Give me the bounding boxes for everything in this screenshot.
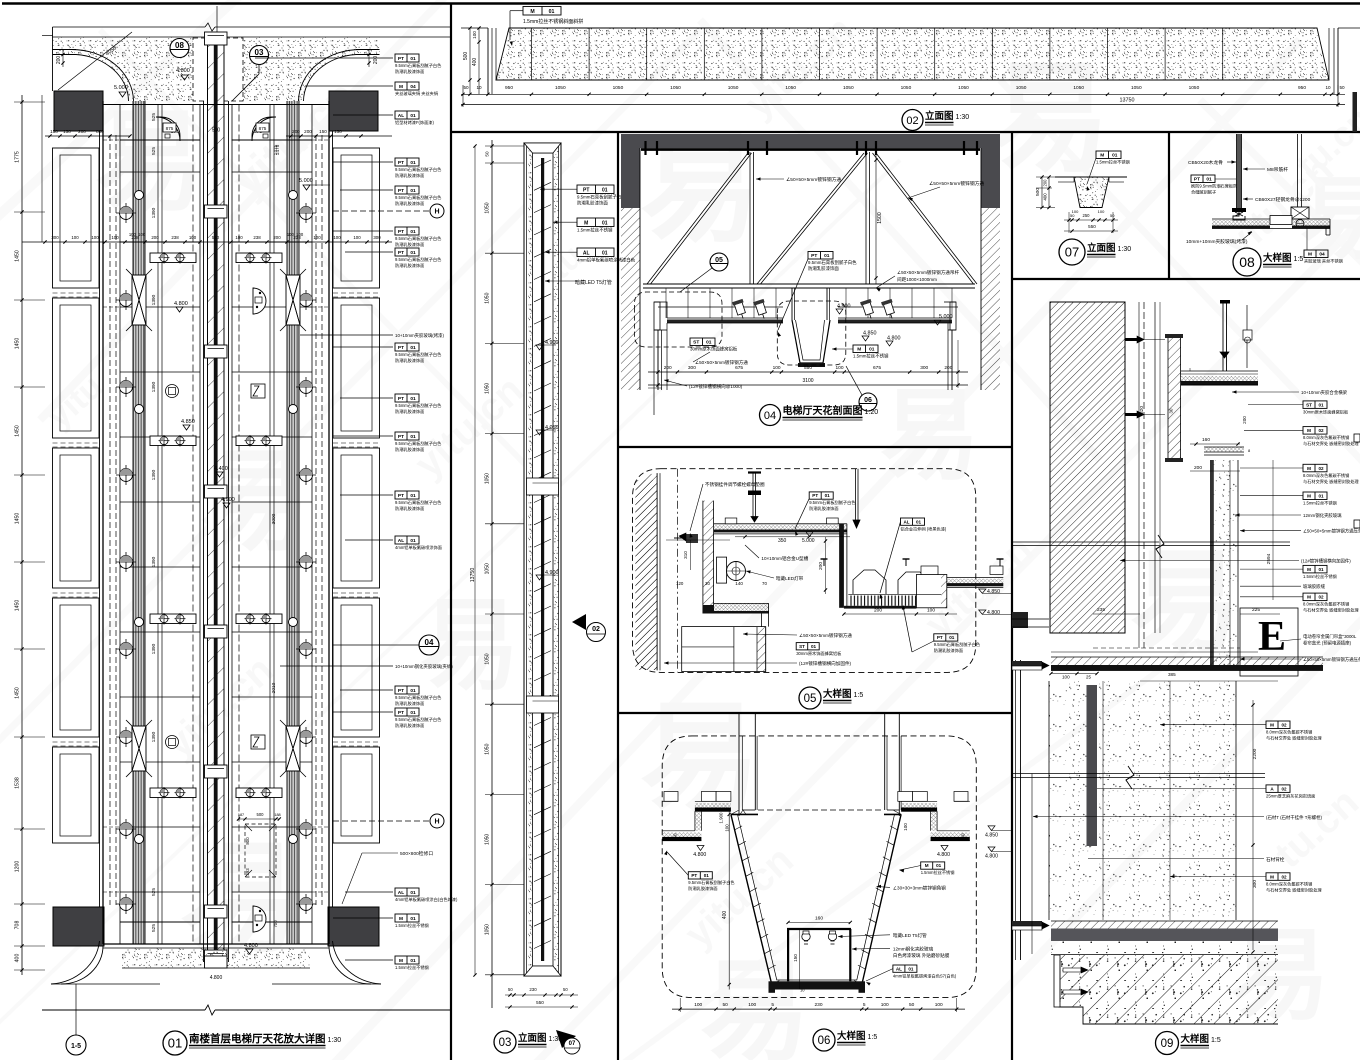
left lower column bits (1031, 774, 1033, 955)
svg-text:100: 100 (927, 608, 935, 614)
svg-text:1.900: 1.900 (719, 812, 724, 824)
truss verticals (749, 152, 751, 284)
trough rim thick (731, 813, 758, 815)
svg-text:100: 100 (91, 235, 99, 240)
svg-text:30mm原木饰面蜂窝铝板: 30mm原木饰面蜂窝铝板 (796, 650, 842, 657)
svg-text:140: 140 (735, 581, 743, 586)
detail bubble 08 (170, 39, 189, 58)
svg-text:(12#镀锌槽钢横向加固件): (12#镀锌槽钢横向加固件) (799, 660, 852, 667)
svg-text:400: 400 (722, 911, 728, 920)
right white box joints (921, 566, 938, 575)
svg-text:875: 875 (166, 126, 174, 131)
svg-text:5.000: 5.000 (114, 85, 128, 91)
svg-text:50: 50 (563, 987, 568, 992)
title 02 (902, 110, 923, 131)
svg-text:02: 02 (1318, 595, 1324, 600)
right wall lines (332, 131, 334, 907)
svg-text:1050: 1050 (485, 563, 491, 574)
spotlights left (732, 299, 748, 320)
svg-text:550: 550 (1088, 224, 1096, 229)
svg-text:防潮乳胶漆饰面: 防潮乳胶漆饰面 (808, 265, 839, 272)
right ledge (916, 575, 946, 608)
svg-text:易: 易 (95, 101, 205, 224)
svg-text:H: H (434, 819, 439, 826)
svg-text:PT: PT (398, 396, 404, 402)
svg-text:8.0mm深灰色氟碳不锈钢: 8.0mm深灰色氟碳不锈钢 (1266, 880, 1312, 887)
svg-text:1450: 1450 (15, 338, 21, 350)
mullion hatched (1168, 337, 1181, 460)
svg-text:01: 01 (410, 56, 416, 62)
svg-text:01: 01 (1318, 567, 1324, 572)
top break line (53, 26, 206, 28)
labels 04 (808, 252, 833, 260)
svg-text:1200: 1200 (15, 861, 21, 873)
rim lines (1055, 176, 1074, 178)
break line lower (1012, 773, 1265, 775)
floor band mid (first) (1051, 657, 1323, 665)
svg-text:防潮乳胶漆饰面: 防潮乳胶漆饰面 (395, 68, 424, 75)
svg-text:∠50×50×5mm镀锌钢方通: ∠50×50×5mm镀锌钢方通 (695, 359, 748, 366)
svg-text:防潮乳胶漆饰面: 防潮乳胶漆饰面 (395, 172, 424, 179)
svg-text:01: 01 (602, 221, 608, 227)
svg-text:01: 01 (410, 710, 416, 716)
svg-text:293: 293 (245, 868, 250, 876)
rounded dashed border 06 (662, 736, 976, 998)
svg-text:大样图: 大样图 (823, 688, 852, 700)
svg-text:5: 5 (771, 1002, 774, 1008)
panel border: below 07/08 (1012, 278, 1360, 280)
svg-text:10+10mm钢化夹胶玻璃(夹绢): 10+10mm钢化夹胶玻璃(夹绢) (395, 663, 453, 670)
small T hangers (821, 558, 828, 560)
ceiling hanger zone lines (658, 306, 783, 308)
concrete column hatched (1050, 302, 1125, 633)
svg-text:01: 01 (410, 890, 416, 896)
svg-text:08: 08 (175, 41, 184, 50)
svg-text:4.800: 4.800 (210, 975, 223, 981)
svg-text:1500: 1500 (877, 212, 883, 224)
svg-text:30: 30 (705, 581, 710, 586)
left end step (654, 302, 667, 318)
svg-text:与石材交界处 嵌缝密封胶处理: 与石材交界处 嵌缝密封胶处理 (1303, 440, 1359, 447)
svg-text:06: 06 (864, 397, 872, 404)
svg-text:1775: 1775 (15, 151, 21, 163)
svg-text:1050: 1050 (485, 292, 491, 303)
dashed wall cavity lines left (109, 135, 111, 905)
svg-text:13750: 13750 (1120, 98, 1135, 104)
svg-text:01: 01 (410, 396, 416, 402)
svg-text:9.5mm石膏板刮腻子白色: 9.5mm石膏板刮腻子白色 (808, 259, 857, 266)
lamps (802, 932, 810, 940)
svg-text:9.5mm石膏板刮腻子白色: 9.5mm石膏板刮腻子白色 (395, 499, 442, 506)
secondary rail (41, 95, 43, 242)
svg-text:500: 500 (463, 52, 469, 61)
svg-text:1.5mm拉丝不锈钢: 1.5mm拉丝不锈钢 (1303, 573, 1337, 580)
trough trapezoid 06 (731, 814, 901, 984)
svg-text:05: 05 (715, 257, 723, 264)
svg-text:160: 160 (1202, 437, 1210, 443)
right edge black bar (02 end wall) (1353, 92, 1358, 132)
svg-text:100: 100 (1062, 675, 1070, 680)
striped column strip left (133, 101, 145, 944)
svg-text:立面图: 立面图 (518, 1032, 547, 1044)
svg-text:200: 200 (818, 562, 824, 570)
svg-text:9.5mm石膏板刮腻子白色: 9.5mm石膏板刮腻子白色 (395, 694, 442, 701)
left top wall stub (52, 27, 54, 91)
left wall lower 04 (653, 330, 655, 415)
board top edge (1204, 451, 1244, 453)
ceiling band 08 (1212, 218, 1330, 220)
svg-text:1050: 1050 (785, 85, 796, 91)
svg-text:200: 200 (373, 56, 379, 65)
svg-text:100: 100 (313, 235, 321, 240)
svg-text:400: 400 (1043, 193, 1048, 201)
svg-text:易: 易 (180, 832, 300, 966)
floor slab diagonal hatch (1059, 955, 1278, 1024)
band segment joints (531, 28, 533, 80)
svg-text:M: M (1307, 494, 1311, 499)
svg-text:12mm钢化夹胶玻璃: 12mm钢化夹胶玻璃 (893, 945, 934, 952)
svg-text:AL: AL (583, 251, 590, 257)
svg-text:铝合金拉伸网 (喷黑色漆): 铝合金拉伸网 (喷黑色漆) (901, 525, 947, 532)
svg-text:4.400: 4.400 (214, 466, 228, 472)
svg-text:100 100: 100 100 (287, 232, 304, 237)
wall face line (659, 473, 661, 670)
svg-text:200: 200 (56, 56, 62, 65)
svg-text:300: 300 (1252, 880, 1258, 888)
svg-text:M: M (925, 863, 929, 868)
svg-text:电梯厅天花剖面图: 电梯厅天花剖面图 (783, 404, 863, 417)
svg-text:4.800: 4.800 (693, 852, 706, 858)
dim 1500 (875, 153, 877, 284)
svg-text:9.5mm石膏板刮腻子白色: 9.5mm石膏板刮腻子白色 (395, 402, 442, 409)
svg-text:01: 01 (410, 434, 416, 440)
svg-text:1450: 1450 (15, 250, 21, 262)
svg-text:4.800: 4.800 (937, 852, 950, 858)
svg-text:235: 235 (1097, 607, 1105, 613)
svg-text:AL: AL (896, 966, 902, 971)
svg-text:2010: 2010 (271, 682, 277, 693)
svg-text:PT: PT (398, 493, 404, 499)
svg-text:01: 01 (410, 538, 416, 544)
svg-text:1.5mm拉丝不锈钢: 1.5mm拉丝不锈钢 (853, 353, 889, 360)
svg-text:ST: ST (1306, 402, 1312, 407)
svg-text:03: 03 (499, 1037, 512, 1049)
svg-text:9.5mm石膏板刮腻子白色: 9.5mm石膏板刮腻子白色 (395, 716, 442, 723)
title 04 (760, 405, 781, 426)
central trough (791, 288, 793, 320)
svg-text:30: 30 (1169, 408, 1174, 413)
svg-text:1050: 1050 (485, 383, 491, 394)
dark column block top-right (329, 91, 378, 131)
svg-text:07: 07 (1065, 245, 1079, 260)
D-shaped downlight mid (253, 288, 266, 314)
svg-text:02: 02 (1318, 428, 1324, 433)
break line mid (1012, 541, 1290, 543)
sheet frame top border (2, 2, 1360, 5)
panel border: right of elevation 03 (617, 132, 619, 1060)
svg-text:M8吊筋杆: M8吊筋杆 (1267, 166, 1288, 173)
svg-text:1.5mm拉丝不锈钢: 1.5mm拉丝不锈钢 (395, 922, 429, 929)
svg-text:1538: 1538 (15, 777, 21, 789)
svg-text:PT: PT (398, 434, 404, 440)
svg-text:4.900: 4.900 (221, 497, 235, 503)
svg-text:AL: AL (398, 538, 404, 544)
svg-text:01: 01 (410, 958, 416, 964)
svg-text:4.850: 4.850 (863, 331, 877, 337)
top interior line (103, 104, 329, 106)
svg-text:(石材T (石材干挂件 T形螺栓): (石材T (石材干挂件 T形螺栓) (1266, 814, 1323, 821)
shaft joint boxes (205, 32, 228, 45)
svg-text:150: 150 (334, 129, 342, 134)
svg-text:400: 400 (472, 58, 478, 67)
truss diagonals (647, 153, 748, 284)
title 09 (1156, 1032, 1179, 1055)
left elevation 4.800 (697, 846, 704, 851)
wall anchor glyph (686, 534, 698, 543)
svg-text:PT: PT (937, 635, 943, 640)
svg-text:∠50×50×5mm镀锌钢方通压条: ∠50×50×5mm镀锌钢方通压条 (1303, 656, 1360, 663)
svg-text:防潮乳胶漆饰面: 防潮乳胶漆饰面 (395, 262, 424, 269)
hanger rods top (1222, 303, 1224, 371)
shaft walls above trough (738, 713, 740, 816)
svg-text:M: M (1307, 428, 1311, 433)
svg-text:1390: 1390 (151, 294, 157, 305)
left dims 07 (1041, 177, 1043, 208)
svg-text:250: 250 (1083, 213, 1091, 218)
bottom dims 07 (1064, 219, 1118, 221)
svg-text:04: 04 (1319, 252, 1325, 258)
svg-text:∠50×50×5mm镀锌钢方通: ∠50×50×5mm镀锌钢方通 (799, 632, 852, 639)
svg-text:01: 01 (410, 345, 416, 351)
svg-text:卷帘盒光 (预留电源插座): 卷帘盒光 (预留电源插座) (1303, 640, 1352, 647)
svg-text:200: 200 (273, 235, 281, 240)
svg-text:∠50×50×5mm镀锌钢方通吊杆: ∠50×50×5mm镀锌钢方通吊杆 (897, 269, 959, 276)
svg-text:01: 01 (811, 644, 817, 649)
dim row main (22, 241, 392, 243)
svg-text:525: 525 (151, 113, 157, 121)
angle bracket (1054, 955, 1060, 1007)
elevation marks (536, 345, 543, 350)
svg-text:4.800: 4.800 (987, 610, 1000, 616)
dim row numbers (461, 93, 1345, 95)
svg-text:1390: 1390 (151, 207, 157, 218)
z clip (1233, 211, 1245, 220)
svg-text:708: 708 (15, 921, 21, 930)
svg-text:100: 100 (748, 1002, 756, 1008)
svg-text:PT: PT (811, 253, 817, 259)
svg-text:01: 01 (949, 635, 955, 640)
svg-text:1:30: 1:30 (956, 114, 970, 121)
svg-text:500: 500 (1035, 188, 1041, 196)
svg-text:01: 01 (1318, 494, 1324, 499)
svg-text:120: 120 (676, 581, 684, 586)
svg-text:150: 150 (63, 129, 71, 134)
svg-text:50: 50 (673, 833, 678, 839)
bubble 06 ref (859, 393, 877, 411)
joint boxes (527, 478, 559, 495)
svg-text:铝型材烤漆F(饰面漆): 铝型材烤漆F(饰面漆) (395, 119, 434, 126)
bottom outer line (51, 983, 160, 985)
svg-text:1050: 1050 (485, 924, 491, 935)
svg-text:合缝腻刮腻子: 合缝腻刮腻子 (1191, 189, 1216, 196)
label M01 (523, 7, 561, 16)
svg-text:∠50×50×5mm镀锌钢方通: ∠50×50×5mm镀锌钢方通 (786, 176, 841, 183)
elevation 5.000 right side (303, 185, 310, 190)
dashed line right of column (1143, 302, 1145, 648)
svg-text:02: 02 (1281, 874, 1287, 879)
wall finish board upper (dark line+stipple) (1210, 460, 1238, 670)
svg-text:PT: PT (1194, 177, 1200, 183)
white shaft box inside cove (193, 38, 243, 101)
svg-text:300: 300 (688, 365, 696, 371)
svg-text:4mm铝单板氟碳烤漆白色S7(白色): 4mm铝单板氟碳烤漆白色S7(白色) (893, 972, 957, 979)
dashed grid line left of shaft (192, 105, 194, 945)
left step detail 06 (701, 792, 716, 802)
svg-text:(12#镀锌槽钢横向@1000): (12#镀锌槽钢横向@1000) (689, 383, 743, 390)
battens above band (725, 518, 737, 524)
svg-text:9.5mm石膏板刮腻子白色: 9.5mm石膏板刮腻子白色 (809, 499, 856, 506)
right step detail 06 mirrored (898, 792, 913, 802)
svg-text:PT: PT (398, 688, 404, 694)
svg-text:1-5: 1-5 (71, 1043, 81, 1050)
svg-text:1450: 1450 (15, 425, 21, 437)
glass clips (1012, 661, 1042, 666)
svg-text:1:30: 1:30 (328, 1037, 342, 1044)
title 03 (494, 1031, 516, 1053)
svg-text:01: 01 (168, 1036, 182, 1051)
pot stipple (1074, 177, 1109, 208)
svg-text:10+10mm夹胶合金横梁: 10+10mm夹胶合金横梁 (1301, 389, 1348, 396)
ceiling board right thick (838, 317, 952, 319)
svg-text:01: 01 (704, 873, 710, 878)
svg-text:1050: 1050 (670, 85, 681, 91)
svg-text:50: 50 (508, 987, 513, 992)
LED lamp 05 (717, 557, 727, 583)
dark column block top-left (54, 91, 103, 131)
bubble 05 ref (710, 253, 728, 271)
svg-text:4.850: 4.850 (987, 589, 1000, 595)
top hanger bolt 05 (752, 472, 754, 517)
dashed lid across trough (758, 809, 884, 811)
svg-text:02: 02 (592, 626, 600, 633)
svg-text:08: 08 (1239, 254, 1255, 270)
svg-text:150: 150 (319, 129, 327, 134)
cove band stipple trapezoid (496, 28, 1329, 80)
svg-text:1.5mm拉丝不锈钢: 1.5mm拉丝不锈钢 (921, 869, 955, 876)
wall brackets on column (1125, 338, 1137, 341)
svg-text:01: 01 (549, 9, 555, 15)
svg-text:9.5mm石膏板刮腻子白色: 9.5mm石膏板刮腻子白色 (395, 256, 442, 263)
svg-text:100: 100 (353, 235, 361, 240)
svg-text:与石材交界处 嵌缝密封胶处理: 与石材交界处 嵌缝密封胶处理 (1303, 478, 1359, 485)
lower floor bands (1051, 921, 1278, 929)
svg-text:100: 100 (881, 1002, 889, 1008)
connector boxes with bolts (150, 253, 196, 263)
svg-text:01: 01 (1206, 177, 1212, 183)
svg-text:1390: 1390 (151, 381, 157, 392)
svg-text:防潮乳胶漆饰面: 防潮乳胶漆饰面 (395, 408, 424, 415)
svg-text:1050: 1050 (843, 85, 854, 91)
elevations right (979, 589, 986, 593)
svg-text:9.5mm石膏板刮腻子白色: 9.5mm石膏板刮腻子白色 (395, 194, 442, 201)
svg-text:100: 100 (935, 1002, 943, 1008)
svg-text:500×800检修口: 500×800检修口 (400, 850, 433, 857)
svg-text:300: 300 (373, 235, 381, 240)
svg-text:1050: 1050 (555, 85, 566, 91)
svg-text:PT: PT (398, 56, 404, 62)
svg-text:电动卷帘金属门帘盒"3000L: 电动卷帘金属门帘盒"3000L (1303, 633, 1357, 640)
svg-text:04: 04 (410, 84, 416, 90)
svg-text:10×10mm铝合金U型槽: 10×10mm铝合金U型槽 (761, 555, 808, 562)
svg-text:02: 02 (1281, 723, 1287, 728)
svg-text:夹胶玻璃 夹丝不锈钢: 夹胶玻璃 夹丝不锈钢 (1304, 258, 1343, 265)
svg-text:238: 238 (171, 235, 179, 240)
plain text 335 (300, 334, 393, 336)
svg-text:550: 550 (804, 365, 812, 371)
svg-text:187: 187 (238, 813, 244, 817)
svg-text:01: 01 (706, 340, 712, 346)
svg-text:10: 10 (800, 988, 805, 993)
total dim (461, 104, 1345, 106)
svg-text:∠50×50×5mm镀锌钢方通压条: ∠50×50×5mm镀锌钢方通压条 (1303, 528, 1360, 535)
svg-text:8.0mm深灰色氟碳不锈钢: 8.0mm深灰色氟碳不锈钢 (1266, 729, 1312, 736)
svg-text:100: 100 (835, 365, 843, 371)
svg-text:防潮乳胶漆饰面: 防潮乳胶漆饰面 (577, 200, 608, 207)
svg-text:9.5mm石膏板刮腻子白色: 9.5mm石膏板刮腻子白色 (395, 351, 442, 358)
svg-text:01: 01 (869, 347, 875, 353)
inner glass line (541, 158, 544, 961)
svg-text:4.800: 4.800 (174, 301, 188, 307)
svg-text:防潮乳胶漆饰面: 防潮乳胶漆饰面 (395, 241, 424, 248)
svg-text:01: 01 (916, 519, 922, 524)
svg-text:防潮乳胶漆饰面: 防潮乳胶漆饰面 (395, 200, 424, 207)
svg-text:M: M (1270, 723, 1274, 728)
inner dims (788, 921, 850, 923)
title 08 (1233, 248, 1261, 276)
svg-text:1050: 1050 (485, 473, 491, 484)
section flag 07 (556, 1030, 576, 1048)
svg-text:防潮乳胶漆饰面: 防潮乳胶漆饰面 (395, 722, 424, 729)
fan wall-washer top-left (156, 117, 180, 141)
elevation marks 04 (836, 309, 843, 314)
svg-text:M: M (584, 221, 588, 227)
title 07 (1059, 239, 1085, 265)
leader labels right column (255, 57, 393, 59)
svg-text:200: 200 (304, 129, 312, 134)
svg-text:1450: 1450 (15, 513, 21, 525)
wood stud rod (1237, 134, 1242, 211)
panel border: between 04 and 05 (618, 446, 1012, 448)
side wall hatch right (981, 208, 1000, 390)
svg-text:9.5mm石膏板刮腻子白色: 9.5mm石膏板刮腻子白色 (395, 440, 442, 447)
left dimension rail (21, 95, 23, 975)
svg-text:E: E (1258, 614, 1286, 660)
svg-text:白色烤漆玻璃 外贴磨砂贴膜: 白色烤漆玻璃 外贴磨砂贴膜 (893, 952, 950, 959)
svg-text:4.850: 4.850 (985, 833, 998, 839)
svg-text:8.0mm深灰色氟碳不锈钢: 8.0mm深灰色氟碳不锈钢 (1303, 434, 1349, 441)
trough trapezoid (792, 320, 830, 363)
slab soffit thick line (641, 148, 980, 151)
svg-text:100: 100 (71, 235, 79, 240)
label M01 07 (1096, 151, 1121, 159)
svg-text:200: 200 (664, 365, 672, 371)
svg-text:3100: 3100 (802, 378, 813, 384)
grid bubbles H (333, 210, 430, 212)
svg-text:300: 300 (920, 365, 928, 371)
svg-text:100: 100 (725, 824, 730, 832)
labels 06 (688, 872, 712, 879)
svg-text:M: M (1100, 153, 1104, 159)
